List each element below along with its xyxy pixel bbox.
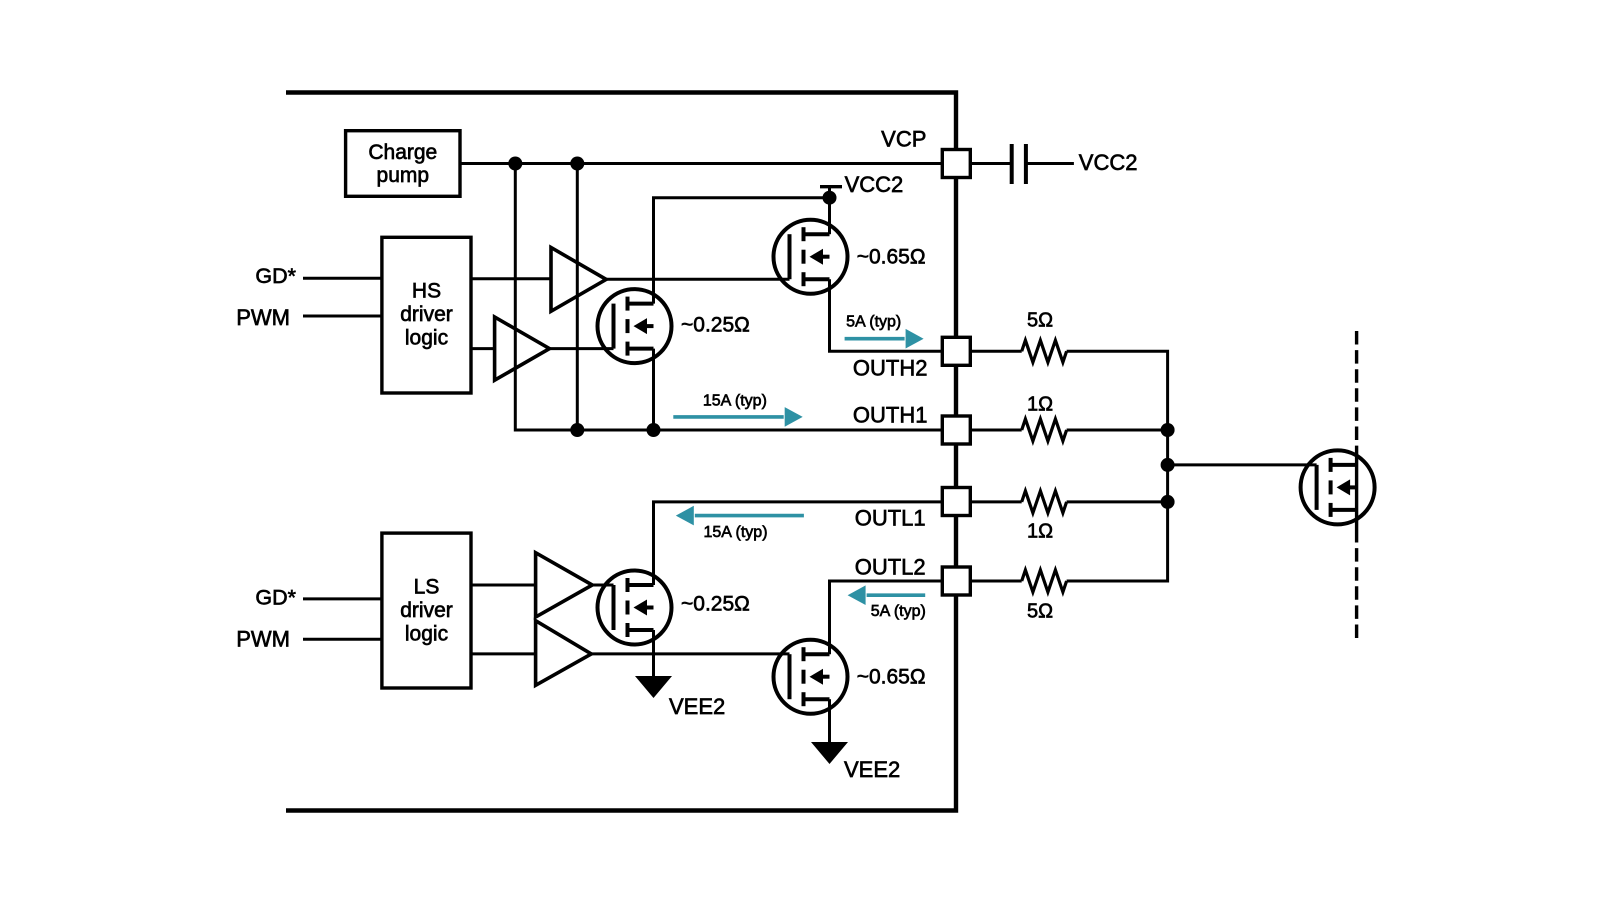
- pin OUTH1: [942, 416, 970, 444]
- wire: Q2 source down to OUTH2 pin: [830, 279, 943, 351]
- resistor R1 5&#937;: [1022, 340, 1067, 362]
- transistor Q2 (HS source, ~0.65 ohm): [774, 220, 848, 294]
- wire: Q1 source down to OUTH1 net: [652, 349, 655, 430]
- wire: Q1 drain up and over to VCC2 node: [654, 198, 830, 304]
- wire: Q5 drain-source vertical: [1355, 446, 1358, 529]
- svg-text:OUTL2: OUTL2: [855, 555, 926, 580]
- svg-text:VCP: VCP: [881, 127, 926, 152]
- svg-text:LS: LS: [414, 576, 440, 599]
- pin OUTL1: [942, 488, 970, 516]
- VCC2 supply tap symbol: [820, 185, 842, 188]
- wire: OUTH1 net horizontal: [515, 429, 942, 432]
- wire: R2 to right rail: [1067, 429, 1168, 432]
- junction dot OUTH1/Q1 source: [647, 423, 661, 437]
- buffer B1 (LS upper): [536, 553, 593, 617]
- junction dot VCC2 node: [823, 191, 837, 205]
- wire: PWM input (LS): [303, 638, 382, 641]
- transistor Q5 (external power MOSFET): [1301, 450, 1375, 524]
- ground VEE2 (Q3): [635, 676, 672, 698]
- buffer A2 (HS lower): [495, 317, 550, 380]
- buffer A1 (HS upper): [551, 248, 606, 312]
- wire: OUTL1 net horizontal to Q3 drain: [654, 502, 943, 585]
- svg-text:OUTL1: OUTL1: [855, 505, 926, 530]
- wire: PWM input (HS): [303, 315, 382, 318]
- wire: right rail vertical: [1166, 430, 1169, 502]
- current arrow 5A into OUTH2: [845, 337, 905, 341]
- LS driver logic block: [382, 533, 471, 688]
- wire: Q3 source down to VEE2: [652, 630, 655, 676]
- svg-text:VEE2: VEE2: [844, 757, 900, 782]
- svg-text:HS: HS: [412, 280, 441, 303]
- svg-text:5Ω: 5Ω: [1027, 309, 1053, 331]
- pin OUTL2: [942, 567, 970, 595]
- transistor Q1 (HS sink, ~0.25 ohm): [598, 289, 672, 363]
- wire: OUTH1 pin to R2: [970, 429, 1021, 432]
- svg-text:GD*: GD*: [255, 586, 296, 610]
- wire: OUTL1 pin to R3: [970, 500, 1021, 503]
- svg-text:5A (typ): 5A (typ): [846, 313, 901, 330]
- svg-text:1Ω: 1Ω: [1027, 394, 1053, 416]
- IC package outline (open left): [286, 93, 956, 811]
- wire: buffer A2 output to Q1 gate: [550, 347, 614, 350]
- HS driver logic block: [382, 237, 471, 393]
- resistor R3 1&#937;: [1022, 491, 1067, 513]
- wire: buffer B2 output to Q4 gate: [591, 652, 789, 655]
- wire: LS logic to buffer B1: [471, 584, 536, 587]
- svg-text:GD*: GD*: [255, 264, 296, 288]
- wire: LS logic to buffer B2: [471, 652, 536, 655]
- svg-text:15A (typ): 15A (typ): [703, 392, 767, 409]
- svg-text:~0.65Ω: ~0.65Ω: [857, 246, 926, 269]
- wire: OUTL2 pin to R4: [970, 580, 1021, 583]
- junction dot B (charge pump rail 2): [570, 157, 584, 171]
- ground VEE2 (Q4): [811, 742, 848, 764]
- svg-text:logic: logic: [405, 327, 448, 350]
- decoupling capacitor C1: [970, 162, 1011, 165]
- svg-text:~0.25Ω: ~0.25Ω: [681, 314, 750, 337]
- transistor Q3 (LS source, ~0.25 ohm): [598, 571, 672, 645]
- wire: buffer A1 output to Q2 gate: [606, 278, 789, 281]
- wire: buffer B1 output to Q3 gate: [592, 584, 613, 587]
- junction dot rail/OUTL1: [1161, 495, 1175, 509]
- wire: charge pump output to VCP pin: [460, 162, 942, 165]
- wire: gate feed to external MOSFET: [1168, 463, 1317, 466]
- svg-text:5A (typ): 5A (typ): [871, 603, 926, 620]
- resistor R2 1&#937;: [1022, 419, 1067, 441]
- svg-text:1Ω: 1Ω: [1027, 520, 1053, 542]
- buffer B2 (LS lower): [536, 621, 592, 686]
- wire: HS logic to buffer A1: [471, 277, 551, 280]
- svg-text:VCC2: VCC2: [845, 172, 904, 197]
- external load dashed line (lower): [1355, 529, 1358, 641]
- wire: Q4 source down to VEE2: [828, 699, 831, 742]
- svg-text:OUTH1: OUTH1: [853, 403, 928, 428]
- transistor Q4 (LS sink, ~0.65 ohm): [774, 640, 848, 714]
- wire: OUTL2 pin over and down to Q4 drain: [830, 581, 943, 654]
- charge pump U1: [346, 131, 460, 197]
- svg-text:~0.25Ω: ~0.25Ω: [681, 593, 750, 616]
- svg-text:VEE2: VEE2: [669, 694, 725, 719]
- wire: vertical rail 2 down to OUTH1: [576, 164, 579, 431]
- current arrow 15A out of OUTL1: [695, 514, 804, 518]
- wire: R3 to right rail: [1067, 500, 1168, 503]
- svg-text:pump: pump: [377, 164, 430, 187]
- wire: vertical rail 1 down to OUTH1: [515, 164, 517, 431]
- junction dot rail/OUTH1: [1161, 423, 1175, 437]
- pin OUTH2: [942, 337, 970, 365]
- wire: HS logic to buffer A2: [471, 347, 495, 350]
- junction dot OUTH1/rail2: [570, 423, 584, 437]
- svg-text:~0.65Ω: ~0.65Ω: [857, 666, 926, 689]
- svg-text:logic: logic: [405, 623, 448, 646]
- current arrow 15A into OUTH1: [673, 415, 783, 419]
- svg-text:PWM: PWM: [236, 627, 290, 652]
- svg-text:Charge: Charge: [368, 141, 437, 164]
- wire: R1 to right rail, corner down: [1067, 351, 1168, 430]
- svg-text:driver: driver: [400, 599, 453, 622]
- wire: GD* input (LS): [303, 597, 382, 600]
- junction dot A (charge pump rail 1): [508, 157, 522, 171]
- wire: OUTH2 pin to R1: [970, 350, 1021, 353]
- resistor R4 5&#937;: [1022, 570, 1067, 592]
- wire: GD* input (HS): [303, 277, 382, 280]
- junction dot rail/gate feed: [1161, 458, 1175, 472]
- current arrow 5A out of OUTL2: [867, 593, 926, 597]
- svg-text:PWM: PWM: [236, 305, 290, 330]
- external load dashed line (upper): [1355, 331, 1358, 446]
- svg-text:OUTH2: OUTH2: [853, 355, 928, 380]
- svg-text:driver: driver: [400, 303, 453, 326]
- svg-text:15A (typ): 15A (typ): [703, 524, 767, 541]
- pin VCP: [942, 150, 970, 178]
- svg-text:VCC2: VCC2: [1079, 150, 1138, 175]
- svg-text:5Ω: 5Ω: [1027, 601, 1053, 623]
- wire: R4 to right rail, corner up: [1067, 502, 1168, 581]
